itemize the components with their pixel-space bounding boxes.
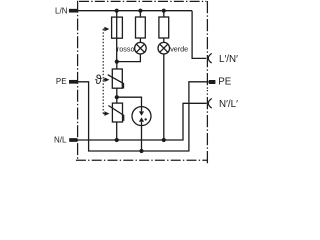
enclosure border right lower (dash-dot)	[206, 90, 208, 163]
wire PE input path down and across	[77, 82, 209, 151]
lamp H1 rosso circle	[135, 42, 147, 54]
thermal link stub bottom	[103, 113, 104, 115]
varistor RV2 body	[112, 103, 122, 122]
wire resistor R1 to lamp H1	[139, 38, 141, 42]
terminal PE input square	[69, 80, 77, 84]
svg-text:N′/L′: N′/L′	[219, 99, 238, 110]
wire varistor1 top lead	[116, 62, 118, 69]
GDT electrode arrow up	[139, 117, 144, 121]
wire verde branch top lead	[163, 11, 165, 17]
node junction dot PE rail GDT	[139, 149, 143, 153]
svg-text:verde: verde	[170, 44, 188, 53]
wire varistor2 bottom lead	[116, 122, 118, 140]
node junction dot fuse-varistor1-lamp	[115, 60, 119, 64]
fuse F1 thermal disconnector body	[112, 17, 123, 38]
svg-text:rosso: rosso	[117, 44, 135, 53]
svg-text:N/L: N/L	[54, 135, 67, 144]
node junction dot rail-rosso	[138, 9, 142, 13]
thermal arrow head middle	[104, 77, 109, 82]
contact L'/N' chevron	[208, 53, 211, 63]
svg-text:PE: PE	[56, 77, 67, 86]
gas discharge tube F2 circle	[132, 107, 151, 126]
thermal link dotted line	[102, 29, 104, 114]
wire N/L bottom rail riser to N'/L'	[77, 103, 206, 140]
thermal arrow head bottom	[104, 111, 109, 116]
wire resistor R2 to lamp H2	[163, 38, 165, 42]
wire fuse branch through-line	[116, 11, 118, 62]
wire rosso branch top lead	[139, 11, 141, 17]
wire varistor2 top lead	[116, 97, 118, 103]
enclosure border bottom (dash-dot)	[76, 159, 208, 161]
enclosure border left (dash-dot)	[77, 1, 79, 161]
lamp H2 cross	[160, 44, 168, 52]
node junction dot N rail varistor2	[115, 138, 119, 142]
GDT gas dot	[145, 118, 147, 120]
enclosure border top (dash-dot)	[79, 0, 206, 2]
wire L/N top rail	[77, 10, 192, 12]
gas discharge tube electrode leads	[141, 107, 143, 126]
thermal link stub top	[103, 28, 104, 30]
svg-text:L′/N′: L′/N′	[219, 54, 238, 65]
node junction dot N rail verde	[162, 138, 166, 142]
wire lamp H1 down and left to junction	[117, 54, 141, 62]
varistor RV2 strike	[108, 106, 123, 121]
svg-text:PE: PE	[218, 76, 232, 87]
resistor R1 rosso branch body	[136, 17, 146, 38]
svg-text:L/N: L/N	[55, 6, 68, 15]
contact N'/L' chevron	[208, 99, 211, 109]
node junction dot rail-fuse	[115, 9, 119, 13]
terminal PE output square	[209, 80, 216, 84]
wire GDT down to PE rail	[141, 126, 143, 151]
node junction dot rail-verde	[162, 9, 166, 13]
varistor RV1 strike	[108, 75, 124, 89]
GDT electrode arrow down	[139, 111, 144, 115]
terminal N/L input square	[69, 138, 77, 142]
enclosure border right upper (dash-dot)	[206, 1, 208, 90]
resistor R2 verde branch body	[159, 17, 169, 38]
wire L riser to L'/N' output	[192, 11, 206, 59]
thermal arrow head top	[104, 27, 109, 32]
thermal link stub middle	[103, 79, 104, 81]
wire lamp H2 down to N rail	[163, 54, 165, 140]
wire junction to gas discharge tube	[117, 97, 142, 106]
terminal L/N input square	[69, 9, 77, 13]
svg-text:ϑ: ϑ	[95, 73, 102, 87]
wire varistor1 bottom lead	[116, 88, 118, 97]
node junction dot varistor1-varistor2-GDT	[115, 95, 119, 99]
lamp H2 verde circle	[158, 42, 170, 54]
lamp H1 cross	[136, 44, 144, 52]
varistor RV1 body	[112, 69, 122, 88]
